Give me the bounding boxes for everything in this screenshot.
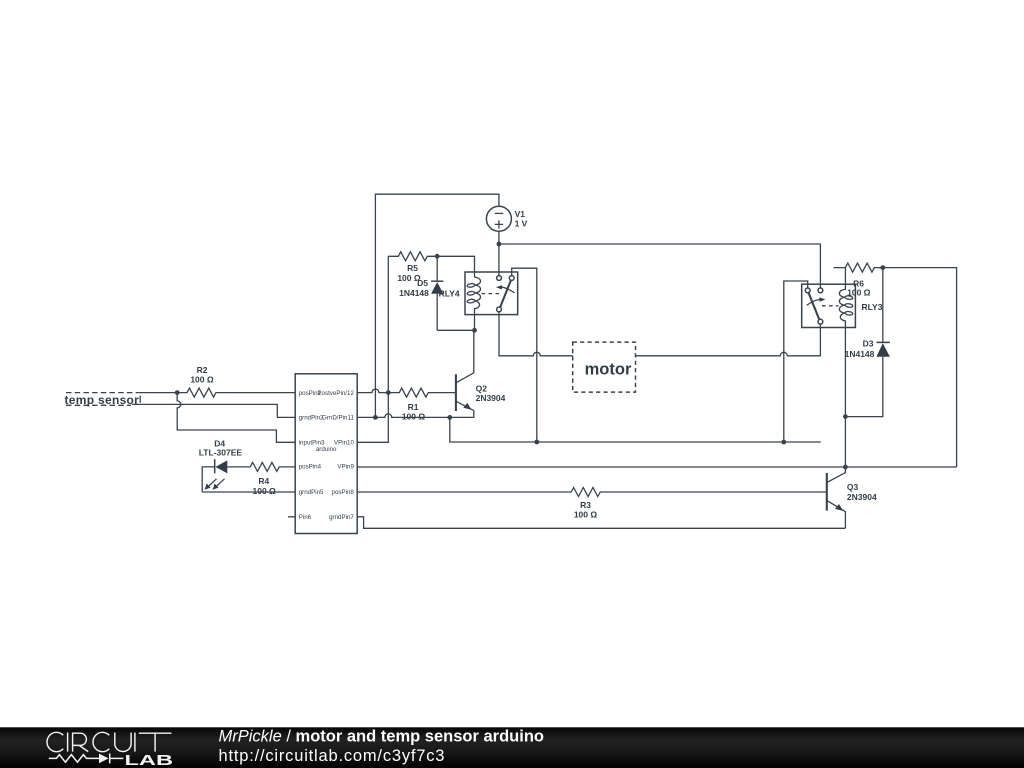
svg-text:R4: R4 <box>258 476 269 486</box>
svg-text:1N4148: 1N4148 <box>845 349 875 359</box>
node bus/RLY3 throw junction <box>781 440 786 445</box>
svg-text:1N4148: 1N4148 <box>399 288 429 298</box>
svg-text:VPin9: VPin9 <box>337 464 354 471</box>
node D3/coil bottom junction <box>843 414 848 419</box>
wire V1 bottom lead to junction <box>498 231 500 244</box>
svg-text:R5: R5 <box>407 263 418 273</box>
node R6/D3 junction <box>880 265 885 270</box>
wire top rail: grndPin2 junction up and over to V1 <box>375 194 499 417</box>
wire D5 bottom to coil bottom <box>437 329 474 331</box>
svg-text:100 Ω: 100 Ω <box>253 486 277 496</box>
svg-text:1 V: 1 V <box>515 219 528 229</box>
wire VPin9 rail <box>357 466 956 468</box>
svg-text:grndPin2: grndPin2 <box>299 415 324 422</box>
svg-text:Pin6: Pin6 <box>299 514 312 521</box>
svg-text:LAB: LAB <box>125 753 174 768</box>
svg-text:posPin8: posPin8 <box>332 489 355 496</box>
resistor R5 <box>388 252 437 283</box>
node R5/D5 junction <box>435 254 440 259</box>
svg-text:Q3: Q3 <box>847 482 859 492</box>
wire motor right to RLY3 bottom contact <box>636 324 821 356</box>
svg-text:motor: motor <box>585 360 632 378</box>
resistor R1 <box>388 388 456 421</box>
wire R6 junction right and down <box>883 268 957 467</box>
svg-text:100 Ω: 100 Ω <box>190 374 214 384</box>
wire V1 junction down to RLY4 left contact <box>498 244 500 276</box>
svg-text:2N3904: 2N3904 <box>847 492 877 502</box>
node V1 bottom junction <box>497 242 502 247</box>
op-amp/IC arduino box <box>295 374 357 534</box>
motor M1 <box>573 342 636 392</box>
wire R5 junction to RLY4 coil top <box>437 256 474 277</box>
resistor R3 <box>357 488 827 520</box>
node bus/RLY4 throw junction <box>534 440 539 445</box>
node posPin1/R5 junction <box>386 390 391 395</box>
wire posPin1 to R1 junction (hop over left vertical) <box>357 389 388 393</box>
svg-text:100 Ω: 100 Ω <box>402 412 426 422</box>
svg-text:100 Ω: 100 Ω <box>847 288 871 298</box>
svg-text:grndPin7: grndPin7 <box>329 514 354 521</box>
wire grndPin5 to LED cathode <box>202 491 295 493</box>
FOOTER <box>0 727 1024 768</box>
svg-text:V1: V1 <box>515 209 526 219</box>
CircuitLab logo wordmark <box>47 732 171 751</box>
node grndPin2/top-rail junction <box>373 415 378 420</box>
voltage source V1 <box>486 206 527 231</box>
wire bus: grndPin2 junction down then right <box>450 417 821 442</box>
wire RLY4 bottom contact to motor <box>499 312 573 356</box>
svg-text:PostvePin/12: PostvePin/12 <box>317 390 354 397</box>
wire temp sensor bottom to grndPin2 <box>132 404 295 417</box>
svg-text:posPin4: posPin4 <box>299 464 322 471</box>
relay RLY4 <box>439 272 518 330</box>
svg-text:Q2: Q2 <box>476 383 488 393</box>
svg-text:R1: R1 <box>408 402 419 412</box>
svg-text:temp sensor: temp sensor <box>65 393 140 407</box>
wire V1 junction to RLY3 top contact <box>499 244 821 288</box>
svg-text:RLY4: RLY4 <box>439 288 460 298</box>
diode D4 LED <box>199 438 250 492</box>
wire R5 line: VPin10 up to R5 left lead <box>357 256 388 442</box>
resistor R6 <box>834 263 883 298</box>
svg-text:VPin10: VPin10 <box>334 440 355 447</box>
wire Q3 emitter to grndPin7 <box>357 517 845 529</box>
wire temp sensor top to R2 <box>139 392 178 394</box>
svg-text:http://circuitlab.com/c3yf7c3: http://circuitlab.com/c3yf7c3 <box>219 747 446 765</box>
logo resistor-diode glyph <box>49 753 124 763</box>
svg-text:R3: R3 <box>580 500 591 510</box>
svg-text:LTL-307EE: LTL-307EE <box>199 448 243 458</box>
wire coil bottom to VPin9 junction <box>844 417 846 467</box>
wire grndPin2 to Q2 emitter (hop over R5 vertical) <box>357 414 474 417</box>
svg-text:MrPickle / motor and temp sens: MrPickle / motor and temp sensor arduino <box>219 728 544 746</box>
node coil bottom junction <box>472 328 477 333</box>
resistor R2 <box>177 365 295 397</box>
node temp/R2/input junction <box>175 390 180 395</box>
svg-text:D3: D3 <box>863 339 874 349</box>
svg-text:2N3904: 2N3904 <box>476 393 506 403</box>
node grndPin2/bus junction <box>447 415 452 420</box>
svg-text:100 Ω: 100 Ω <box>574 510 598 520</box>
svg-text:RLY3: RLY3 <box>862 302 883 312</box>
svg-text:grndPin5: grndPin5 <box>299 489 324 496</box>
svg-text:arduino: arduino <box>316 446 337 453</box>
wire RLY4 right throw up-over-down to bus <box>512 268 537 442</box>
diode D5 <box>399 256 443 330</box>
wire junction to inputPin3 (hop over grnd wire) <box>177 393 295 443</box>
diode D3 <box>845 268 890 417</box>
transistor Q2 <box>456 330 506 417</box>
wire Pin6 stub <box>288 516 295 518</box>
node VPin9/coil/Q3 junction <box>843 465 848 470</box>
wire RLY3 left throw up-over-down to bus <box>784 281 808 442</box>
resistor R4 <box>250 462 295 496</box>
relay RLY3 <box>802 268 883 417</box>
temp sensor label <box>65 393 141 407</box>
svg-text:D5: D5 <box>417 278 428 288</box>
transistor Q3 <box>827 467 877 528</box>
svg-text:GrnD/Pin11: GrnD/Pin11 <box>322 415 354 422</box>
svg-text:R2: R2 <box>197 365 208 375</box>
arduino pin labels <box>299 390 355 521</box>
